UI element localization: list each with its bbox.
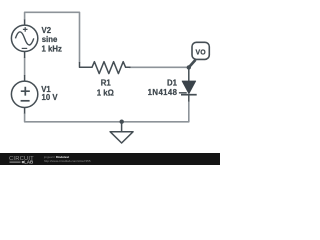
- svg-text:1 kΩ: 1 kΩ: [97, 88, 114, 97]
- svg-text:http://www.circuitlab.com/c/sw: http://www.circuitlab.com/c/sw7455: [44, 159, 91, 163]
- svg-text:R1: R1: [101, 78, 112, 87]
- svg-text:sine: sine: [42, 35, 58, 44]
- svg-text:1N4148: 1N4148: [148, 88, 178, 97]
- svg-text:10 V: 10 V: [42, 93, 59, 102]
- svg-text:1 kHz: 1 kHz: [42, 45, 62, 54]
- svg-text:■LAB: ■LAB: [22, 159, 34, 164]
- svg-text:VO: VO: [196, 50, 207, 57]
- svg-text:D1: D1: [167, 79, 178, 88]
- svg-text:V2: V2: [42, 26, 52, 35]
